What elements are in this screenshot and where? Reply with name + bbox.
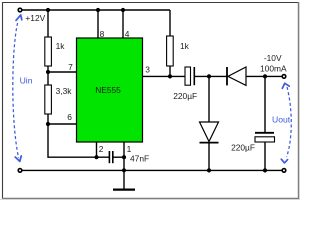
wire D1 top lead	[208, 76, 210, 122]
wire pin 2 drop	[96, 142, 98, 157]
svg-text:220µF: 220µF	[173, 91, 197, 101]
wire top supply rail	[20, 9, 170, 11]
resistor R2 3,3k body	[45, 85, 52, 114]
node junction pin1 bottom rail	[122, 168, 126, 172]
node junction C3 bottom rail	[263, 168, 267, 172]
svg-text:1k: 1k	[56, 41, 66, 51]
node junction pin3 R3	[168, 74, 172, 78]
wire C3 bottom lead	[264, 142, 266, 170]
node junction pin6	[46, 122, 50, 126]
svg-text:-10V: -10V	[264, 53, 282, 63]
node junction rail R1	[46, 8, 50, 12]
diode D2 series	[227, 67, 246, 85]
wire R2 top lead	[47, 72, 49, 85]
capacitor C3 220uF output	[255, 133, 275, 142]
svg-text:3: 3	[145, 65, 150, 75]
wire C3 top lead	[264, 76, 266, 132]
capacitor C2 220uF series	[185, 67, 194, 85]
svg-text:3,3k: 3,3k	[56, 86, 73, 96]
node junction C3 branch	[263, 74, 267, 78]
wire pin 3 output row	[143, 75, 186, 77]
resistor R1 1k left body	[45, 37, 52, 66]
terminal bottom left	[18, 169, 22, 173]
op-amp U1 NE555 body	[77, 38, 143, 142]
wire left drop to trigger row	[48, 124, 109, 157]
svg-text:100mA: 100mA	[260, 63, 287, 73]
svg-text:2: 2	[99, 144, 104, 154]
wire C2 to D1 node	[194, 75, 227, 77]
node junction D1 branch	[207, 74, 211, 78]
wire pin 1 drop	[123, 142, 125, 170]
wire R3 bottom lead	[169, 66, 171, 76]
wire rail to R3	[169, 10, 171, 36]
svg-text:8: 8	[100, 29, 105, 39]
terminal output -10V	[282, 75, 286, 79]
node junction D1 bottom rail	[207, 168, 211, 172]
svg-text:47nF: 47nF	[130, 154, 149, 164]
diode D1 shunt	[200, 122, 219, 143]
wire R1 bottom lead	[47, 66, 49, 72]
node junction pin7	[46, 70, 50, 74]
svg-text:NE555: NE555	[95, 85, 121, 95]
wire D2 to output terminal	[246, 75, 284, 77]
wire bottom rail	[20, 169, 284, 171]
svg-text:1k: 1k	[180, 41, 190, 51]
terminal +12V input	[18, 8, 22, 12]
svg-text:220µF: 220µF	[231, 143, 255, 153]
node junction rail pin4	[121, 8, 125, 12]
wire C1 right lead	[113, 156, 124, 158]
wire pin 8	[97, 10, 99, 38]
wire R1 top lead	[47, 10, 49, 38]
wire R2 bottom lead	[47, 114, 49, 124]
svg-text:1: 1	[127, 144, 132, 154]
svg-text:Uout: Uout	[272, 115, 291, 125]
svg-text:4: 4	[125, 29, 130, 39]
resistor R3 1k right body	[167, 36, 174, 66]
ground	[113, 170, 135, 189]
svg-text:+12V: +12V	[25, 13, 45, 23]
svg-text:6: 6	[67, 112, 72, 122]
wire Uin arrow	[13, 15, 22, 162]
capacitor C1 47nF plates	[109, 151, 112, 163]
wire pin 4	[122, 10, 124, 38]
svg-text:Uin: Uin	[20, 76, 33, 86]
node junction pin2 trigger row	[94, 155, 98, 159]
wire Uout arrow	[281, 83, 291, 163]
wire D1 bottom lead	[208, 143, 210, 170]
border frame	[0, 2, 300, 200]
node junction C1 pin1	[122, 155, 126, 159]
wire pin 7	[48, 71, 77, 73]
wire pin 6	[48, 123, 77, 125]
svg-text:7: 7	[68, 62, 73, 72]
terminal bottom right	[282, 169, 286, 173]
node junction rail pin8	[96, 8, 100, 12]
